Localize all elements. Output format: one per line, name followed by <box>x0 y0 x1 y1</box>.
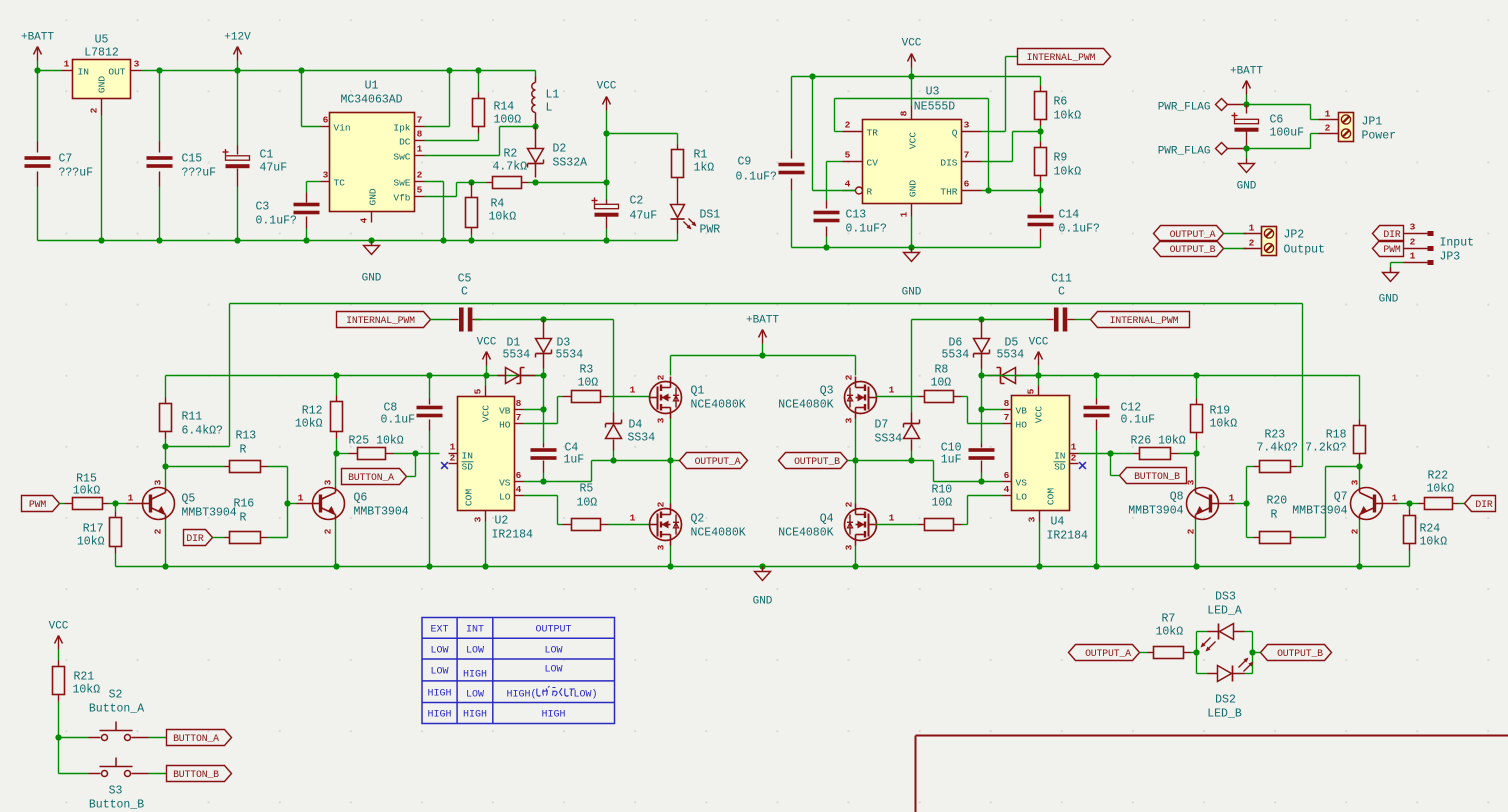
wire <box>1195 520 1197 567</box>
svg-text:VB: VB <box>1016 406 1028 417</box>
junction <box>908 244 914 250</box>
svg-text:R14: R14 <box>494 101 515 114</box>
svg-text:8: 8 <box>1004 398 1010 409</box>
wire <box>59 737 89 739</box>
mosfet Q2 NCE4080K <box>650 509 682 541</box>
wire vcc rail right <box>982 375 1360 377</box>
wire <box>1311 133 1319 135</box>
svg-text:GND: GND <box>97 76 108 93</box>
svg-text:2: 2 <box>89 107 100 113</box>
wire <box>1111 453 1134 455</box>
svg-text:7.2kΩ?: 7.2kΩ? <box>1305 442 1347 455</box>
wire <box>425 140 479 142</box>
wire <box>524 495 558 497</box>
wire <box>142 70 536 72</box>
wire <box>287 467 289 538</box>
diode D6 5534 <box>981 320 983 339</box>
wire <box>912 460 934 462</box>
ground (JP3) <box>1390 268 1392 273</box>
no-connect X (U4 SD) <box>1079 462 1086 469</box>
junction <box>1093 563 1099 569</box>
svg-text:HIGH: HIGH <box>463 710 487 721</box>
svg-text:HIGH: HIGH <box>427 689 451 700</box>
svg-text:2: 2 <box>1325 123 1331 134</box>
svg-text:5534: 5534 <box>997 349 1025 362</box>
wire <box>670 419 672 461</box>
svg-text:R8: R8 <box>935 364 949 377</box>
junction <box>978 316 984 322</box>
svg-text:C1: C1 <box>260 149 274 162</box>
junction <box>603 237 609 243</box>
ground (C6) <box>1246 149 1248 159</box>
svg-text:2: 2 <box>417 170 423 181</box>
wire <box>1013 131 1041 133</box>
junction <box>1193 372 1199 378</box>
svg-text:R: R <box>1271 509 1278 522</box>
svg-text:VCC: VCC <box>908 132 919 149</box>
wire gnd rail <box>38 240 678 242</box>
junction <box>540 316 546 322</box>
capacitor C1 <box>237 71 239 146</box>
resistor R24 <box>1409 504 1411 510</box>
wire <box>425 181 444 183</box>
junction <box>298 67 304 73</box>
junction <box>985 187 991 193</box>
svg-text:Q6: Q6 <box>354 492 368 505</box>
capacitor C6 <box>1246 105 1248 114</box>
svg-text:L1: L1 <box>546 89 560 102</box>
junction <box>156 67 162 73</box>
wire <box>499 127 501 156</box>
wire <box>876 396 919 398</box>
svg-text:R: R <box>867 187 873 198</box>
junction <box>440 237 446 243</box>
junction <box>98 237 104 243</box>
resistor R17 <box>115 504 117 512</box>
svg-text:HIGH: HIGH <box>541 710 565 721</box>
wire <box>1326 466 1360 468</box>
svg-text:1: 1 <box>899 211 910 217</box>
global label OUTPUT_A (JP2) <box>1154 226 1224 242</box>
svg-text:OUTPUT_B: OUTPUT_B <box>794 456 840 467</box>
svg-text:NCE4080K: NCE4080K <box>778 399 833 412</box>
svg-text:4: 4 <box>359 217 370 223</box>
svg-text:10kΩ: 10kΩ <box>1054 110 1082 123</box>
svg-text:C3: C3 <box>256 201 270 214</box>
wire batt rail <box>671 355 856 357</box>
wire <box>1079 453 1111 455</box>
svg-text:4.7kΩ: 4.7kΩ <box>493 161 528 174</box>
wire <box>337 453 349 455</box>
wire <box>855 461 857 504</box>
wire <box>962 396 968 398</box>
svg-text:+BATT: +BATT <box>21 32 54 44</box>
svg-text:10Ω: 10Ω <box>931 377 952 390</box>
svg-text:DIR: DIR <box>186 533 203 544</box>
global label INTERNAL_PWM (mid-left) <box>337 312 431 328</box>
svg-text:R12: R12 <box>302 405 323 418</box>
svg-text:2: 2 <box>844 374 855 380</box>
wire <box>912 319 1047 321</box>
junction <box>759 563 765 569</box>
svg-text:D4: D4 <box>629 419 643 432</box>
svg-text:47uF: 47uF <box>630 210 658 223</box>
svg-text:PWR_FLAG: PWR_FLAG <box>1158 102 1211 114</box>
wire <box>1390 263 1392 273</box>
svg-text:U2: U2 <box>495 515 509 528</box>
wire <box>524 409 544 411</box>
no-connect X (U2 SD) <box>441 462 448 469</box>
wire <box>982 375 989 377</box>
wire <box>1247 104 1311 106</box>
svg-text:10kΩ: 10kΩ <box>73 485 101 498</box>
svg-text:5: 5 <box>845 150 851 161</box>
svg-text:1kΩ: 1kΩ <box>694 162 715 175</box>
svg-text:R6: R6 <box>1054 96 1068 109</box>
svg-text:0.1uF?: 0.1uF? <box>736 171 778 184</box>
wire <box>166 446 230 448</box>
junction <box>540 406 546 412</box>
wire <box>1410 503 1419 505</box>
wire <box>962 524 968 526</box>
svg-text:L7812: L7812 <box>84 47 119 60</box>
junction <box>532 179 538 185</box>
wire <box>967 397 969 424</box>
wire <box>407 476 416 478</box>
LED DS1 PWR <box>677 178 679 205</box>
wire <box>1310 134 1312 149</box>
junction <box>156 237 162 243</box>
svg-text:R3: R3 <box>580 364 594 377</box>
wire top rail INT <box>230 303 1303 305</box>
wire <box>670 546 672 567</box>
wire <box>1006 56 1018 58</box>
svg-text:Q7: Q7 <box>1334 491 1348 504</box>
svg-text:C13: C13 <box>846 209 867 222</box>
svg-text:COM: COM <box>464 489 475 506</box>
svg-text:GND: GND <box>1379 294 1399 306</box>
svg-text:1: 1 <box>1229 493 1235 504</box>
wire vcc rail 555 <box>792 76 1041 78</box>
wire <box>1075 319 1091 321</box>
svg-text:COM: COM <box>1046 488 1057 505</box>
wire <box>982 481 1003 483</box>
svg-text:C11: C11 <box>1051 273 1072 286</box>
svg-text:3: 3 <box>1027 516 1038 522</box>
svg-text:Q: Q <box>952 128 958 139</box>
svg-text:3: 3 <box>844 544 855 550</box>
junction <box>368 237 374 243</box>
junction <box>426 563 432 569</box>
svg-text:VCC: VCC <box>902 38 922 50</box>
wire <box>1247 148 1311 150</box>
global label OUTPUT_B (bridge) <box>779 453 848 469</box>
wire <box>165 467 167 488</box>
junction <box>852 563 858 569</box>
capacitor C9 <box>791 77 793 151</box>
svg-text:R17: R17 <box>83 523 104 536</box>
junction <box>303 237 309 243</box>
diode D2 SS32A <box>535 127 537 149</box>
svg-text:L: L <box>546 102 553 115</box>
wire <box>1235 503 1247 505</box>
svg-text:R20: R20 <box>1267 495 1288 508</box>
wire <box>606 134 608 183</box>
wire <box>485 376 487 386</box>
wire <box>558 524 563 526</box>
svg-text:VB: VB <box>499 406 511 417</box>
wire <box>524 423 558 425</box>
svg-text:LOW: LOW <box>544 665 562 676</box>
junction <box>532 123 538 129</box>
svg-text:3: 3 <box>153 479 164 485</box>
junction <box>540 372 546 378</box>
svg-text:Q8: Q8 <box>1170 491 1184 504</box>
svg-text:S2: S2 <box>109 689 123 702</box>
junction <box>162 443 168 449</box>
wire <box>335 454 337 488</box>
junction <box>426 372 432 378</box>
wire <box>524 481 544 483</box>
svg-text:6: 6 <box>323 115 329 126</box>
junction <box>234 67 240 73</box>
svg-text:R9: R9 <box>1054 152 1068 165</box>
svg-text:5534: 5534 <box>503 349 531 362</box>
svg-text:OUTPUT_A: OUTPUT_A <box>1085 648 1131 659</box>
mosfet Q3 NCE4080K <box>845 382 877 414</box>
wire <box>425 196 457 198</box>
svg-text:LOW): LOW) <box>574 689 598 701</box>
wire <box>1140 652 1148 654</box>
wire <box>116 503 127 505</box>
svg-text:3: 3 <box>1410 222 1416 233</box>
svg-text:3: 3 <box>473 516 484 522</box>
svg-text:47uF: 47uF <box>260 162 288 175</box>
global label INTERNAL_PWM (mid-right) <box>1091 312 1190 328</box>
svg-text:INT: INT <box>466 625 484 636</box>
gate driver U2 IR2184 <box>458 397 515 511</box>
global label PWM (JP3) <box>1373 241 1404 257</box>
svg-text:7: 7 <box>417 115 423 126</box>
junction <box>112 500 118 506</box>
junction <box>475 67 481 73</box>
svg-text:PWM: PWM <box>29 499 46 510</box>
wire <box>911 320 913 413</box>
svg-text:5: 5 <box>473 388 484 394</box>
svg-text:Input: Input <box>1440 237 1475 250</box>
wire <box>557 397 559 424</box>
svg-text:10kΩ: 10kΩ <box>1427 483 1455 496</box>
svg-text:10kΩ: 10kΩ <box>1054 166 1082 179</box>
mosfet Q1 NCE4080K <box>650 382 682 414</box>
svg-text:SD: SD <box>462 462 474 473</box>
svg-text:CV: CV <box>867 158 879 169</box>
svg-text:Power: Power <box>1362 130 1397 143</box>
svg-text:LOW: LOW <box>430 646 448 657</box>
wire <box>982 131 1006 133</box>
junction <box>482 563 488 569</box>
svg-text:VCC: VCC <box>1029 337 1049 349</box>
svg-text:R13: R13 <box>236 430 257 443</box>
svg-text:LED_A: LED_A <box>1207 605 1242 618</box>
svg-text:DIR: DIR <box>1475 499 1492 510</box>
svg-text:SD: SD <box>1054 462 1066 473</box>
svg-text:HO: HO <box>499 420 511 431</box>
svg-text:2: 2 <box>153 528 164 534</box>
wire <box>591 461 593 482</box>
svg-text:R: R <box>240 444 247 457</box>
hierarchical sheet frame <box>916 735 1508 737</box>
junction <box>1037 187 1043 193</box>
svg-text:3: 3 <box>134 59 140 70</box>
wire led loop <box>1196 632 1198 674</box>
wire <box>485 522 487 567</box>
wire <box>670 356 672 376</box>
svg-text:4: 4 <box>845 179 851 190</box>
wire <box>855 546 857 567</box>
svg-text:7: 7 <box>964 150 970 161</box>
svg-text:1: 1 <box>630 385 636 396</box>
global label DIR (JP3) <box>1373 226 1404 242</box>
svg-text:R10: R10 <box>932 484 953 497</box>
svg-text:DS3: DS3 <box>1215 591 1236 604</box>
svg-text:LOW: LOW <box>466 690 484 701</box>
wire <box>1024 375 1039 377</box>
wire <box>835 131 843 133</box>
wire <box>302 126 321 128</box>
svg-text:JP2: JP2 <box>1284 229 1305 242</box>
svg-text:LOW: LOW <box>430 667 448 678</box>
svg-text:R1: R1 <box>694 149 708 162</box>
junction <box>333 372 339 378</box>
junction <box>978 372 984 378</box>
wire <box>109 503 116 505</box>
wire <box>449 71 451 127</box>
svg-text:OUTPUT_B: OUTPUT_B <box>1277 648 1323 659</box>
junction <box>908 457 914 463</box>
svg-text:HO: HO <box>1016 420 1028 431</box>
wire <box>933 461 935 482</box>
wire <box>529 182 536 184</box>
svg-text:10kΩ: 10kΩ <box>489 211 517 224</box>
wire <box>335 520 337 567</box>
wire <box>1325 467 1327 538</box>
svg-text:VCC: VCC <box>481 405 492 422</box>
wire <box>613 320 615 397</box>
wire <box>149 737 167 739</box>
wire <box>812 77 814 191</box>
svg-text:1: 1 <box>1249 223 1255 234</box>
wire <box>457 182 472 184</box>
global label OUTPUT_A (led) <box>1069 645 1140 661</box>
svg-text:BUTTON_A: BUTTON_A <box>348 472 394 483</box>
svg-text:MMBT3904: MMBT3904 <box>182 507 237 520</box>
svg-text:2: 2 <box>844 501 855 507</box>
svg-text:6: 6 <box>516 470 522 481</box>
junction <box>809 73 815 79</box>
svg-text:GND: GND <box>902 287 922 299</box>
svg-text:R21: R21 <box>74 671 95 684</box>
svg-text:Q2: Q2 <box>691 513 705 526</box>
svg-text:EXT: EXT <box>430 625 448 636</box>
svg-text:C9: C9 <box>738 156 752 169</box>
svg-text:2: 2 <box>1071 453 1077 464</box>
svg-text:MMBT3904: MMBT3904 <box>1292 505 1347 518</box>
svg-text:???uF: ???uF <box>182 167 217 180</box>
svg-text:R4: R4 <box>491 198 505 211</box>
svg-text:Button_A: Button_A <box>89 703 144 716</box>
svg-text:1uF: 1uF <box>941 454 962 467</box>
gate driver U4 IR2184 <box>1012 396 1070 511</box>
svg-text:MMBT3904: MMBT3904 <box>354 506 409 519</box>
svg-text:C5: C5 <box>458 273 472 286</box>
ground (555) <box>911 217 913 248</box>
connector JP1 Power <box>1319 119 1339 121</box>
svg-text:2: 2 <box>323 528 334 534</box>
wire <box>1359 520 1361 567</box>
junction <box>468 237 474 243</box>
wire <box>1246 467 1248 538</box>
svg-text:DC: DC <box>399 137 411 148</box>
resistor R6 <box>1040 77 1042 86</box>
svg-text:U3: U3 <box>926 86 940 99</box>
wire <box>1391 262 1404 264</box>
svg-text:INTERNAL_PWM: INTERNAL_PWM <box>1027 52 1096 63</box>
svg-text:C2: C2 <box>630 195 644 208</box>
wire vcc rail left <box>166 375 544 377</box>
svg-text:U1: U1 <box>365 80 379 93</box>
junction <box>162 463 168 469</box>
svg-text:HIGH(: HIGH( <box>507 689 537 701</box>
svg-text:Q4: Q4 <box>820 513 834 526</box>
diode D3 5534 <box>543 320 545 339</box>
svg-text:1: 1 <box>417 144 423 155</box>
junction <box>234 237 240 243</box>
svg-text:3: 3 <box>656 417 667 423</box>
junction <box>667 563 673 569</box>
svg-text:R26 10kΩ: R26 10kΩ <box>1131 435 1186 448</box>
junction <box>1035 372 1041 378</box>
resistor R4 <box>471 183 473 198</box>
svg-text:SS32A: SS32A <box>553 157 588 170</box>
wire <box>607 133 678 135</box>
junction <box>1356 463 1362 469</box>
wire <box>856 460 912 462</box>
svg-text:LED_B: LED_B <box>1207 708 1242 721</box>
svg-text:C: C <box>1058 286 1065 299</box>
svg-text:VCC: VCC <box>597 81 617 93</box>
junction <box>55 734 61 740</box>
svg-text:Button_B: Button_B <box>89 799 144 812</box>
svg-text:MC34063AD: MC34063AD <box>340 94 402 107</box>
svg-text:2: 2 <box>450 453 456 464</box>
mosfet Q4 NCE4080K <box>845 509 877 541</box>
resistor R21 <box>58 661 60 667</box>
truth table <box>422 618 615 724</box>
wire <box>229 304 231 447</box>
svg-text:4: 4 <box>1004 484 1010 495</box>
svg-text:3: 3 <box>844 417 855 423</box>
junction <box>667 457 673 463</box>
junction <box>1107 450 1113 456</box>
junction <box>162 563 168 569</box>
junction <box>446 67 452 73</box>
svg-text:OUT: OUT <box>108 67 125 78</box>
svg-text:Vfb: Vfb <box>393 193 410 204</box>
ground <box>371 241 373 246</box>
junction <box>978 478 984 484</box>
junction <box>610 457 616 463</box>
